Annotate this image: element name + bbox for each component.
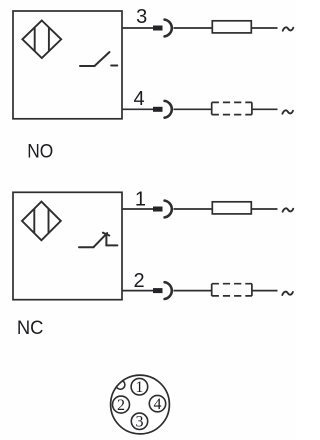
svg-text:3: 3 <box>136 6 147 28</box>
AC supply tilde pin 1 <box>283 208 294 211</box>
AC supply tilde pin 4 <box>282 110 293 113</box>
connector face outline <box>111 375 170 434</box>
connector plug pin 1 <box>153 201 172 218</box>
connector plug pin 3 <box>153 20 172 37</box>
connector plug pin 4 <box>153 101 172 118</box>
keying notch <box>116 380 125 389</box>
svg-text:4: 4 <box>154 396 162 413</box>
svg-text:3: 3 <box>136 414 144 431</box>
svg-text:1: 1 <box>135 379 143 396</box>
connector pin 4 <box>149 395 165 413</box>
AC supply tilde pin 3 <box>283 27 294 30</box>
wire plug to load pin 2 <box>174 290 212 292</box>
load resistor (solid) pin 3 <box>212 21 251 33</box>
wire pin 3 <box>122 27 153 29</box>
svg-text:2: 2 <box>117 397 125 414</box>
sensor box (NC type) <box>13 192 122 299</box>
load resistor (solid) pin 1 <box>212 202 251 214</box>
load resistor (dashed) pin 4 <box>212 102 252 114</box>
wire plug to load pin 4 <box>174 108 212 110</box>
wire load to supply pin 4 <box>252 108 278 110</box>
svg-text:4: 4 <box>133 88 144 110</box>
svg-text:1: 1 <box>135 189 146 211</box>
wire load to supply pin 1 <box>252 208 278 210</box>
connector pin 1 <box>131 378 148 396</box>
connector plug pin 2 <box>153 282 172 299</box>
wire plug to load pin 1 <box>174 208 213 210</box>
connector pin 3 <box>131 413 147 431</box>
wire load to supply pin 3 <box>252 27 278 29</box>
wire plug to load pin 3 <box>174 27 213 29</box>
sensor box (NO type) <box>13 11 122 119</box>
proximity sensor symbol (diamond) NO box <box>22 21 61 59</box>
NO contact switch <box>80 52 117 66</box>
proximity sensor symbol (diamond) NC box <box>22 202 61 241</box>
wire load to supply pin 2 <box>252 290 278 292</box>
wire pin 1 <box>122 208 153 210</box>
connector pin 2 <box>113 396 130 414</box>
AC supply tilde pin 2 <box>282 292 293 295</box>
wire pin 4 <box>122 108 153 110</box>
svg-text:NO: NO <box>27 142 53 163</box>
wire pin 2 <box>122 290 153 292</box>
svg-text:NC: NC <box>17 318 44 339</box>
load resistor (dashed) pin 2 <box>212 284 252 296</box>
NC contact switch <box>79 233 117 248</box>
svg-text:2: 2 <box>133 270 144 292</box>
